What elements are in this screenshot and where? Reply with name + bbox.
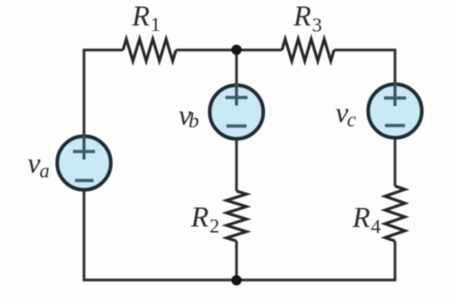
node: top junction — [231, 45, 241, 55]
label vb — [179, 100, 200, 133]
wire vc to R4 — [394, 137, 397, 186]
svg-text:a: a — [40, 161, 50, 183]
voltage source va — [57, 135, 111, 190]
svg-text:3: 3 — [312, 14, 322, 36]
wire left-bottom segment — [84, 189, 237, 280]
wire top-middle segment — [176, 49, 282, 52]
resistor R2 — [227, 191, 247, 241]
svg-text:4: 4 — [371, 216, 381, 238]
label va — [28, 148, 50, 183]
svg-text:R: R — [190, 202, 209, 234]
svg-text:1: 1 — [151, 14, 161, 36]
wire bottom-right segment — [237, 241, 396, 280]
voltage source vb — [210, 84, 264, 139]
label vc — [336, 97, 357, 132]
resistor R1 — [123, 39, 176, 61]
svg-text:b: b — [189, 109, 200, 133]
svg-text:2: 2 — [210, 216, 220, 238]
svg-text:R: R — [352, 202, 371, 234]
label R1 — [131, 1, 161, 37]
node: bottom junction — [231, 275, 241, 285]
wire top-right segment — [334, 50, 395, 85]
voltage source vc — [368, 83, 422, 138]
wire middle top (node to vb) — [235, 50, 238, 86]
svg-text:c: c — [347, 110, 356, 132]
label R3 — [293, 0, 323, 36]
svg-text:R: R — [131, 1, 150, 33]
wire top-left segment — [84, 50, 123, 137]
label R4 — [352, 202, 381, 238]
label R2 — [190, 202, 220, 238]
resistor R4 — [385, 186, 405, 241]
resistor R3 — [282, 39, 334, 61]
wire vb to R2 — [235, 138, 238, 191]
wire R2 to bottom node — [235, 241, 238, 280]
svg-text:R: R — [293, 0, 312, 32]
